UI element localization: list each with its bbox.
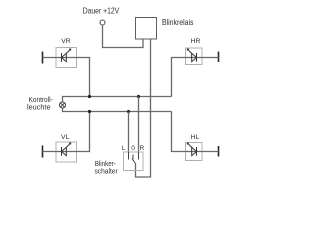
svg-text:leuchte: leuchte: [27, 103, 51, 112]
LED symbol VR: [62, 49, 71, 62]
switch S1 Blinkerschalter box: [124, 152, 144, 171]
svg-text:HR: HR: [191, 38, 201, 45]
wire R contact to right bus: [138, 97, 140, 153]
terminal bar HR: [218, 52, 220, 63]
lamp VL box: [56, 142, 77, 162]
terminal bar VL: [42, 146, 44, 158]
svg-text:Dauer +12V: Dauer +12V: [83, 6, 120, 16]
svg-text:0: 0: [131, 145, 135, 152]
relay K1 Blinkrelais box: [136, 18, 157, 40]
switch contact stub 0: [132, 155, 134, 160]
wire VL lamp to left bus: [43, 112, 90, 152]
wire VR lamp to right bus: [43, 58, 90, 97]
junction VR/right bus: [88, 95, 91, 98]
LED symbol VL: [62, 143, 71, 156]
wire L contact to left bus: [128, 112, 130, 153]
svg-text:R: R: [139, 145, 144, 152]
switch contact stub R: [138, 152, 140, 160]
lamp HR box: [186, 48, 203, 65]
junction L contact/left bus: [127, 110, 130, 113]
junction R contact/right bus: [137, 95, 140, 98]
terminal bar HL: [218, 146, 220, 157]
wire right bus (top): [63, 97, 172, 102]
wire HR lamp to right bus: [172, 58, 219, 97]
lamp VR box: [56, 48, 77, 68]
lamp HL box: [186, 143, 203, 161]
junction VL/left bus: [88, 110, 91, 113]
switch contact stub L: [128, 152, 130, 160]
svg-text:schalter: schalter: [95, 167, 119, 176]
svg-text:VL: VL: [61, 134, 70, 141]
wire left bus (bottom): [63, 108, 172, 111]
lamp Kontrollleuchte symbol: [59, 102, 65, 108]
svg-text:L: L: [122, 145, 126, 152]
wire +12V to relay left pin: [103, 25, 144, 48]
wire relay right pin to switch lever (feed): [136, 39, 151, 177]
terminal bar VR: [42, 52, 44, 64]
svg-text:VR: VR: [61, 38, 71, 45]
LED symbol HR: [187, 49, 196, 62]
node Dauer +12V terminal: [100, 20, 105, 25]
svg-text:Blinkrelais: Blinkrelais: [162, 18, 194, 27]
svg-text:HL: HL: [191, 134, 200, 141]
switch lever: [132, 159, 136, 164]
wire HL lamp to left bus: [172, 112, 219, 152]
LED symbol HL: [187, 143, 196, 156]
